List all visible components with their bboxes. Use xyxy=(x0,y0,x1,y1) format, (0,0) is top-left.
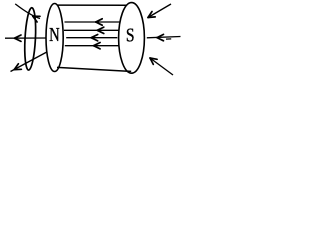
cylinder top edge xyxy=(57,4,127,6)
inner field line 1 xyxy=(65,21,120,23)
S pole face xyxy=(119,3,145,74)
inner field line 3 xyxy=(66,37,117,39)
svg-text:N: N xyxy=(49,24,60,45)
cylinder bottom edge xyxy=(57,67,131,71)
inner field line 4 xyxy=(65,45,119,47)
right field line (middle) xyxy=(147,37,181,38)
left field line (middle) xyxy=(5,37,47,39)
left field line (bottom) xyxy=(11,52,47,72)
short stray segment under right middle line xyxy=(166,38,171,40)
right field line (bottom) xyxy=(150,58,173,75)
right field line (top) xyxy=(148,4,171,18)
svg-text:S: S xyxy=(126,24,135,46)
coil loop xyxy=(23,7,37,70)
left field line (top) xyxy=(15,4,40,19)
N pole face xyxy=(46,4,63,72)
inner field line 2 xyxy=(64,29,119,31)
